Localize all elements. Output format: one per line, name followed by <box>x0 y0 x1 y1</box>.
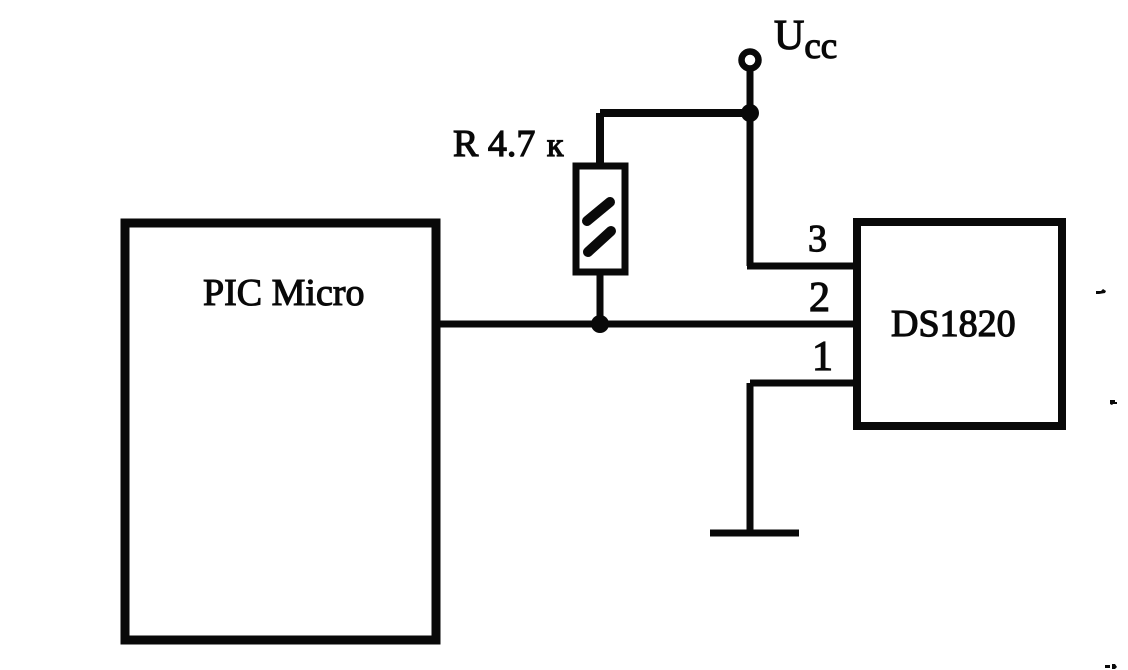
wire: resistor bottom lead <box>597 272 604 324</box>
wire: PIC Micro DQ to DS1820 pin 2 <box>433 321 857 328</box>
svg-text:1: 1 <box>812 334 833 380</box>
svg-text:DS1820: DS1820 <box>891 303 1016 345</box>
ground <box>710 530 799 537</box>
IC box U2 DS1820 <box>857 222 1062 426</box>
IC box U1 PIC Micro <box>125 223 436 640</box>
svg-text:PIC Micro: PIC Micro <box>203 272 365 314</box>
resistor R1 body <box>576 166 625 272</box>
wire: top horizontal to Ucc <box>600 109 750 117</box>
wire: ground vertical <box>747 383 754 533</box>
power terminal Ucc <box>742 52 759 69</box>
wire: DS1820 pin 3 (Vdd) <box>747 263 857 270</box>
svg-text:R 4.7 к: R 4.7 к <box>453 123 564 165</box>
junction node: Ucc wire to resistor branch <box>741 104 759 122</box>
junction node: resistor to DQ wire <box>591 315 609 333</box>
svg-text:2: 2 <box>809 275 830 321</box>
svg-text:Ucc: Ucc <box>774 13 837 67</box>
svg-text:3: 3 <box>808 218 827 260</box>
wire: resistor top lead <box>596 113 604 166</box>
wire: Ucc vertical <box>747 69 754 266</box>
wire: DS1820 pin 1 (GND) horizontal <box>750 380 857 387</box>
